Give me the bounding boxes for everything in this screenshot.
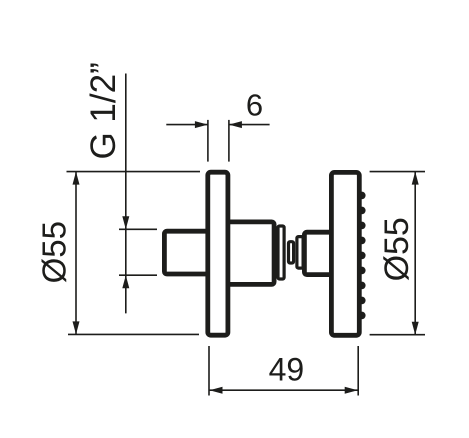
- svg-text:6: 6: [246, 87, 263, 122]
- svg-text:Ø55: Ø55: [35, 221, 72, 283]
- svg-text:Ø55: Ø55: [378, 217, 416, 281]
- svg-text:49: 49: [269, 352, 305, 388]
- dimension 49 lines: [209, 346, 358, 396]
- valve body: [224, 222, 274, 285]
- ring step 1: [278, 226, 284, 279]
- dimension G 1/2 arrowheads: [122, 216, 129, 288]
- dimension G 1/2 leader line: [119, 74, 157, 314]
- handle plate: [331, 172, 359, 335]
- svg-text:G 1/2”: G 1/2”: [84, 62, 123, 159]
- dimension Ø55 right lines: [370, 172, 425, 335]
- knurl bumps: [358, 192, 366, 320]
- dimension Ø55 left lines: [67, 172, 201, 335]
- wall plate: [208, 172, 228, 335]
- dimension Ø55 right arrowheads: [412, 172, 419, 335]
- dimension 49 arrowheads: [210, 387, 358, 394]
- dimension Ø55 left arrowheads: [73, 172, 80, 335]
- stem: [289, 242, 294, 263]
- spigot block G1/2: [164, 231, 219, 274]
- dimension 6 lines: [166, 120, 269, 162]
- dimension 6 arrowheads: [195, 121, 242, 128]
- ring step 2: [297, 237, 303, 269]
- handle hub: [304, 232, 340, 274]
